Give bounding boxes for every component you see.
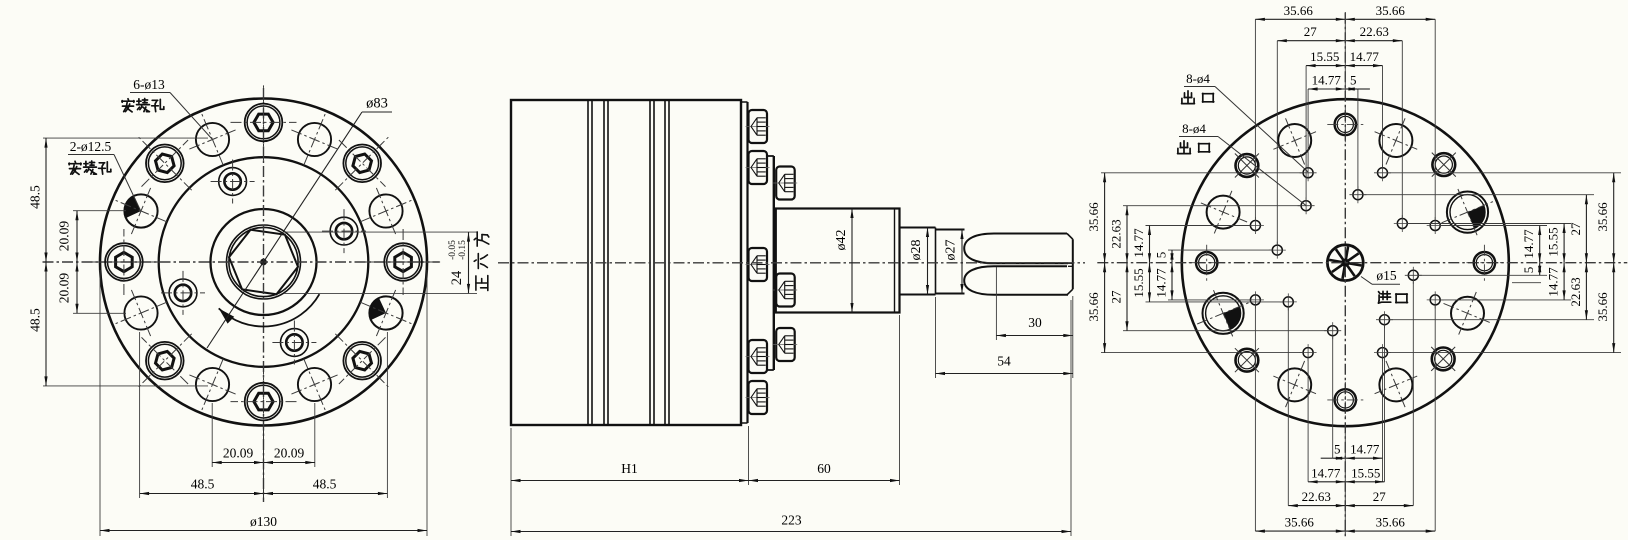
svg-text:22.63: 22.63: [1568, 277, 1583, 306]
svg-text:14.77: 14.77: [1311, 465, 1341, 480]
svg-text:14.77: 14.77: [1546, 267, 1561, 297]
svg-text:48.5: 48.5: [191, 477, 215, 492]
svg-text:6-ø13: 6-ø13: [133, 77, 165, 92]
svg-text:35.66: 35.66: [1086, 292, 1101, 322]
svg-text:14.77: 14.77: [1521, 229, 1536, 259]
svg-text:22.63: 22.63: [1109, 219, 1124, 248]
svg-text:20.09: 20.09: [274, 446, 305, 461]
svg-text:48.5: 48.5: [28, 308, 43, 332]
svg-text:35.66: 35.66: [1284, 3, 1314, 18]
svg-text:22.63: 22.63: [1302, 489, 1331, 504]
svg-text:14.77: 14.77: [1350, 442, 1380, 457]
svg-text:15.55: 15.55: [1546, 227, 1561, 256]
svg-text:35.66: 35.66: [1376, 515, 1406, 530]
svg-text:15.55: 15.55: [1310, 49, 1339, 64]
svg-text:ø83: ø83: [366, 96, 388, 112]
svg-text:20.09: 20.09: [57, 221, 72, 252]
svg-text:15.55: 15.55: [1351, 465, 1380, 480]
svg-text:35.66: 35.66: [1376, 3, 1406, 18]
svg-text:8-ø4: 8-ø4: [1182, 121, 1206, 136]
svg-text:-0.15: -0.15: [458, 240, 468, 260]
svg-text:5: 5: [1334, 442, 1341, 457]
svg-text:60: 60: [817, 461, 831, 476]
svg-text:ø130: ø130: [250, 514, 277, 529]
svg-text:24: 24: [449, 270, 465, 285]
svg-text:14.77: 14.77: [1154, 268, 1169, 298]
svg-text:5: 5: [1521, 267, 1536, 274]
svg-text:5: 5: [1154, 252, 1169, 259]
svg-text:35.66: 35.66: [1086, 202, 1101, 232]
svg-text:27: 27: [1109, 290, 1124, 304]
svg-text:20.09: 20.09: [57, 273, 72, 304]
svg-text:20.09: 20.09: [223, 446, 254, 461]
svg-text:14.77: 14.77: [1350, 49, 1380, 64]
svg-text:-0.05: -0.05: [448, 240, 458, 260]
svg-text:223: 223: [781, 513, 802, 528]
svg-text:2-ø12.5: 2-ø12.5: [70, 139, 112, 154]
svg-text:35.66: 35.66: [1595, 292, 1610, 322]
svg-text:14.77: 14.77: [1131, 228, 1146, 258]
svg-text:ø28: ø28: [909, 240, 924, 261]
svg-text:ø27: ø27: [944, 240, 959, 261]
svg-text:27: 27: [1304, 24, 1318, 39]
svg-text:ø15: ø15: [1376, 268, 1397, 283]
svg-text:30: 30: [1028, 315, 1042, 330]
svg-text:48.5: 48.5: [313, 477, 337, 492]
svg-text:H1: H1: [621, 461, 638, 476]
svg-text:35.66: 35.66: [1595, 202, 1610, 232]
svg-text:27: 27: [1373, 489, 1387, 504]
svg-text:8-ø4: 8-ø4: [1186, 71, 1210, 86]
svg-text:27: 27: [1568, 222, 1583, 236]
svg-text:22.63: 22.63: [1360, 24, 1389, 39]
svg-text:5: 5: [1350, 73, 1357, 88]
svg-text:ø42: ø42: [834, 230, 849, 251]
svg-text:48.5: 48.5: [28, 185, 43, 209]
svg-text:15.55: 15.55: [1131, 268, 1146, 297]
svg-text:14.77: 14.77: [1312, 73, 1342, 88]
svg-text:54: 54: [997, 354, 1011, 369]
svg-text:35.66: 35.66: [1285, 515, 1315, 530]
